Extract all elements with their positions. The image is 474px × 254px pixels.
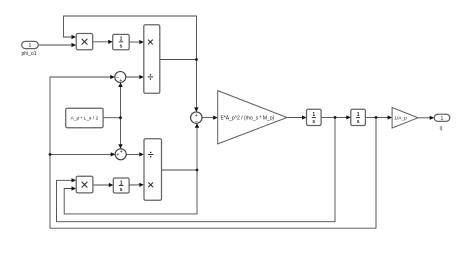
svg-text:phi_o1: phi_o1 — [21, 51, 36, 57]
svg-text:A_p * L_s / 2: A_p * L_s / 2 — [71, 116, 99, 122]
svg-text:E*A_p^2 / (rho_s * M_p): E*A_p^2 / (rho_s * M_p) — [221, 115, 275, 121]
svg-text:−: − — [195, 119, 198, 125]
svg-text:s: s — [120, 187, 123, 193]
svg-text:s: s — [357, 119, 360, 125]
svg-text:1: 1 — [441, 116, 444, 122]
svg-text:s: s — [312, 119, 315, 125]
svg-text:s: s — [120, 44, 123, 50]
svg-text:+: + — [120, 149, 123, 155]
svg-text:+: + — [195, 113, 198, 119]
svg-text:1/A_p: 1/A_p — [394, 116, 407, 122]
svg-text:1: 1 — [29, 43, 32, 49]
svg-text:+: + — [119, 78, 122, 84]
svg-text:q: q — [440, 126, 443, 132]
